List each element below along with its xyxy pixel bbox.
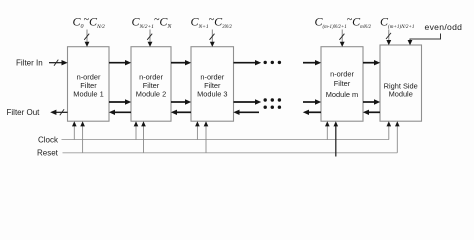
bus slash coefficient 2 [147, 34, 152, 40]
svg-text:n-order: n-order [330, 70, 354, 79]
wire right side module to module m back [368, 111, 380, 113]
wire module2 to module3 top [171, 62, 186, 64]
wire module1 to module2 top [109, 62, 126, 64]
wire even/odd to right side module [410, 34, 441, 42]
reset branch right side module [396, 125, 398, 153]
wire module m to dots back [308, 111, 321, 113]
svg-text:CN/2+1~CN: CN/2+1~CN [132, 15, 173, 31]
dots ellipsis mid row [264, 98, 267, 101]
svg-text:Filter Out: Filter Out [7, 108, 41, 117]
wire module2 to module1 back [114, 111, 131, 113]
svg-text:Filter In: Filter In [16, 58, 43, 67]
wire coefficient to right side module [388, 30, 390, 42]
reset branch module2 [143, 125, 145, 153]
wire Filter In [49, 62, 63, 64]
svg-text:C0~CN/2: C0~CN/2 [73, 15, 106, 31]
reset branch module1 [82, 125, 84, 153]
clock branch right side module [388, 125, 390, 140]
svg-text:Filter: Filter [334, 79, 351, 88]
svg-text:Clock: Clock [38, 135, 59, 144]
bus slash coefficient 1 [84, 34, 89, 40]
svg-text:Reset: Reset [37, 149, 59, 158]
wire module2 to module3 mid [171, 101, 186, 103]
wire Filter Out [56, 111, 68, 113]
wire module m to right side module mid [363, 101, 375, 103]
wire module3 to module2 back [176, 111, 191, 113]
module box m [321, 47, 363, 122]
reset branch module3 [205, 125, 207, 153]
svg-text:even/odd: even/odd [425, 22, 463, 32]
clock distribution line [62, 139, 389, 141]
module box 3 [191, 47, 234, 122]
bus slash on Filter Out [60, 109, 64, 115]
bus slash coefficient m [339, 34, 344, 40]
reset distribution line [63, 152, 398, 154]
bus slash on Filter In [54, 60, 58, 66]
svg-text:C(m+1)N/2+1: C(m+1)N/2+1 [380, 15, 414, 30]
bus slash coefficient 3 [210, 34, 215, 40]
right side module box [380, 45, 422, 121]
wire coefficient to module m [341, 30, 343, 44]
wire coefficient to module1 [86, 30, 88, 44]
module box 2 [131, 47, 171, 122]
clock branch module1 [73, 125, 75, 140]
wire coefficient to module3 [211, 30, 213, 44]
svg-text:CN+1~C3N/2: CN+1~C3N/2 [191, 15, 233, 31]
bus slash coefficient right [386, 33, 391, 39]
reset branch module m [335, 125, 337, 157]
svg-text:Module: Module [389, 89, 413, 98]
wire module1 to module2 mid [109, 101, 126, 103]
wire module3 to dots top [234, 62, 257, 64]
svg-text:C(m-1)N/2+1~CmN/2: C(m-1)N/2+1~CmN/2 [315, 15, 372, 31]
clock branch module2 [135, 125, 137, 140]
wire dots to module m top [303, 62, 316, 64]
wire dots to module m mid [303, 101, 316, 103]
svg-text:Module 2: Module 2 [136, 90, 166, 99]
wire dots to module3 back [239, 111, 260, 113]
module box 1 [68, 47, 110, 122]
wire module3 to dots mid [234, 101, 257, 103]
svg-text:Module 1: Module 1 [73, 90, 103, 99]
dots ellipsis top row [264, 61, 267, 64]
wire module m to right side module top [363, 62, 375, 64]
dots ellipsis low row [264, 106, 267, 109]
clock branch module m [326, 125, 328, 140]
wire coefficient to module2 [149, 30, 151, 44]
svg-text:Module m: Module m [326, 90, 358, 99]
svg-text:Module 3: Module 3 [197, 90, 227, 99]
clock branch module3 [196, 125, 198, 140]
